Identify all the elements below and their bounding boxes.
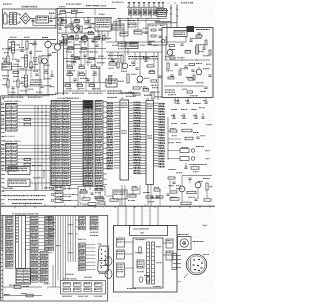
wire q1 emitter (47, 48, 49, 58)
cassette box interior extras (134, 251, 137, 254)
video section extra parts (109, 63, 116, 65)
label analog parts (2, 47, 3, 50)
mid lower cluster parts (80, 191, 87, 193)
wire divider ticks (14, 206, 16, 208)
DIN key notch (190, 259, 192, 271)
wire U2 left pins (141, 102, 146, 104)
cluster right of ICs (132, 188, 138, 190)
cassette sub board (133, 238, 163, 288)
capacitor C25 (196, 136, 199, 138)
resistor R11 (39, 56, 41, 63)
resistor R51 (185, 137, 193, 140)
fitting table box (61, 281, 106, 295)
resistor R13 (17, 80, 19, 87)
label row section A-1 (2, 96, 3, 99)
capacitor C9 (33, 41, 36, 43)
capacitor C20 (176, 101, 179, 103)
capacitor C12 (95, 44, 98, 46)
wire crystal links (168, 130, 170, 132)
connector CN4 keyboard ribbon body (16, 216, 26, 269)
resistor R22 (79, 66, 85, 68)
connector CN audio in (2, 63, 12, 70)
keyboard section border (1, 216, 108, 302)
smudge labels mid (65, 60, 68, 63)
label audio (59, 39, 60, 42)
bridge rectifier D1 (21, 13, 31, 24)
wire U10 left (84, 23, 95, 25)
IC U20 keyboard decoder (8, 167, 30, 175)
IC bottom drops (121, 185, 123, 206)
label clock (188, 163, 191, 166)
scan speckle (0, 1, 213, 302)
capacitor C59 (8, 46, 11, 48)
IC U21 (8, 179, 30, 187)
left schematic border (0, 96, 2, 216)
connector control port ovals (105, 257, 112, 266)
resistor R28 (89, 84, 95, 86)
wire q4 down (57, 50, 59, 95)
analog stubs final (12, 40, 14, 43)
transistor Q12 (73, 27, 79, 33)
resistor R73 (134, 30, 142, 34)
diode D2 (85, 21, 89, 23)
label mid parts (57, 24, 60, 27)
wire +12V feed B (176, 5, 178, 23)
resistor R30 (169, 44, 175, 46)
resistor R16 (94, 37, 100, 39)
IC U2 VIC 6567 (146, 101, 154, 185)
left analog extra labels 2 (10, 36, 11, 39)
wire PSU outputs (57, 13, 58, 16)
wire u10 drops (101, 31, 103, 42)
keyboard note extras (32, 164, 33, 167)
wire mid rail B (64, 48, 107, 50)
wire mid section divider (63, 36, 65, 95)
capacitor C17 (50, 74, 53, 76)
connector J1 cassette jack (178, 237, 192, 250)
mid label column U1-U2 (133, 101, 134, 104)
label cartridge bottom row (54, 92, 57, 95)
mid analog caps (70, 54, 73, 56)
capacitor C35 (189, 39, 192, 41)
resistor R6 (103, 36, 105, 41)
section divider under analog (1, 95, 50, 97)
resistor R26 (65, 84, 71, 86)
keyboard pin cells column B (30, 217, 38, 220)
capacitor C31 (202, 47, 205, 49)
mid analog extra labels (66, 41, 67, 44)
resistor R27 (77, 84, 83, 86)
svg-text:P6 OUTPUT 5: P6 OUTPUT 5 (112, 1, 124, 4)
top mid label row (66, 3, 67, 6)
capacitor C5 (64, 25, 67, 27)
crystal Y1 (180, 149, 189, 153)
analog extra labels (10, 41, 11, 44)
connector CN6 cassette left (117, 238, 125, 247)
connector DIN 8-pin rear view (186, 254, 206, 274)
wire tick header rail (127, 6, 164, 8)
wire audio in (12, 66, 23, 68)
wire rail under ticks (118, 18, 167, 20)
IC U14 modulator driver (112, 24, 124, 30)
connector pin circle row 2 (51, 193, 54, 196)
connector AC inlet (4, 14, 8, 24)
wire control1 row leads (17, 104, 50, 106)
svg-text:CONTROL PORT 1: CONTROL PORT 1 (4, 100, 21, 103)
label pin view (177, 233, 178, 236)
wire video v x135 (134, 52, 136, 66)
resistor R24 (67, 73, 73, 75)
resistor R56 (181, 202, 191, 204)
svg-text:RGB: RGB (98, 242, 103, 245)
keyboard bus link row (46, 216, 48, 221)
wire grid verticals (66, 39, 68, 67)
resistor R3 (74, 20, 80, 22)
capacitor C56 (135, 67, 138, 69)
resistor R65 (88, 32, 94, 34)
DIN pin labels (204, 253, 205, 256)
resistor R42 (24, 118, 31, 120)
wire rf bottom (164, 85, 204, 87)
IC U1 MPU 6510 (120, 100, 129, 180)
resistor R19 (74, 57, 80, 59)
inductor L3 (196, 46, 199, 54)
junction dots control1 (37, 108, 38, 109)
DIN pins (193, 259, 195, 260)
wire note stub (43, 171, 45, 180)
wire bottom mid rail (64, 90, 107, 92)
resistor R61 (14, 286, 21, 289)
capacitor C7 (97, 34, 100, 36)
resistor R62 (26, 294, 33, 297)
wire pin tick 3 (138, 4, 140, 7)
capacitor C1 filter (31, 20, 34, 22)
resistor R14 (68, 37, 74, 39)
resistor R17 (68, 47, 74, 49)
fitting bottom labels (61, 295, 64, 298)
svg-text:CONTROL PORT 2: CONTROL PORT 2 (4, 140, 21, 143)
svg-text:64 SX-1450: 64 SX-1450 (181, 2, 194, 5)
wire video top (106, 41, 162, 43)
wire audio stubs (169, 180, 171, 190)
label video lower (120, 91, 121, 94)
components near divider (82, 198, 90, 200)
label cassette jack (193, 240, 194, 243)
RF box extra text (190, 37, 191, 40)
label tuning (29, 78, 32, 81)
RN1 fills (129, 12, 131, 14)
cartridge slot signal column (83, 101, 93, 186)
wire bottom row 2 (3, 295, 42, 297)
resistor R34 (187, 91, 193, 93)
wire pin tick 6 (153, 4, 155, 7)
sub box outline below table (77, 187, 79, 207)
wire control bus verticals (34, 105, 36, 191)
resistor R43 (24, 123, 31, 125)
wire cassette to DIN (173, 255, 181, 257)
wire pin tick 8 (162, 4, 164, 7)
resistor R36b (167, 63, 169, 69)
wire analog bottom rail (8, 94, 56, 96)
wire video mid (106, 51, 162, 53)
capacitor C26 (184, 166, 187, 168)
capacitor C21 (186, 101, 189, 103)
capacitor C6 (70, 35, 73, 37)
label CN top (121, 92, 122, 95)
wire row3 link (63, 200, 78, 202)
wire transformer secondary (16, 13, 20, 15)
inductor L4 (25, 75, 28, 87)
wire pin tick 5 (148, 4, 150, 7)
resistor R38 (149, 71, 155, 73)
bottom mid labels (48, 227, 51, 230)
capacitor C33 (170, 74, 173, 76)
diode block D10 (55, 186, 63, 191)
resistor R54 (206, 183, 208, 190)
mid grid stubs final (71, 56, 73, 67)
control2 left pin labels (0, 143, 3, 146)
RF box extra parts (179, 70, 181, 75)
crystal Y2 (180, 157, 189, 161)
table bottom drops (52, 186, 54, 191)
clock sub-circuit box (148, 24, 167, 45)
inductor L2 (25, 55, 28, 67)
keyboard pin cells column C upper (45, 217, 54, 220)
IC U13 video amp (125, 43, 138, 49)
wire control2 row leads (17, 144, 50, 146)
upper cells col D extension (79, 217, 86, 220)
connector CN video (106, 79, 117, 87)
resistor R44 (24, 158, 31, 160)
wire rectifier output (31, 18, 37, 20)
capacitor C54 (44, 69, 47, 71)
wire stub analog 3 (17, 64, 19, 73)
wire video stubs (111, 52, 113, 62)
resistor R60 (170, 198, 179, 200)
analog extra caps (35, 73, 38, 75)
svg-text:U2: U2 (147, 97, 149, 100)
transistor Q10 (167, 50, 173, 56)
capacitor C13 (93, 71, 96, 73)
capacitor C34 (204, 86, 207, 88)
label from power board (156, 9, 157, 12)
resistor R55 (204, 199, 211, 201)
capacitor C27 (194, 198, 197, 200)
capacitor C11 (11, 86, 14, 88)
label between ovals (100, 264, 101, 267)
wire top rail drop (57, 9, 59, 45)
junction dots control2 (37, 148, 38, 149)
resistor R45 (24, 163, 31, 165)
label video note (127, 56, 130, 57)
wire U2 right pins (154, 102, 159, 104)
connector CN1 control port 1 (6, 104, 18, 132)
svg-text:1530 DATASSETTE: 1530 DATASSETTE (133, 228, 150, 231)
wire video verticals (109, 52, 111, 58)
capacitor C14 (148, 42, 151, 44)
wire body right fan (26, 217, 31, 219)
wire clock lines (168, 150, 180, 152)
resistor R8 (26, 41, 28, 49)
RF extra parts 2 (197, 32, 200, 34)
labels above ICs (106, 96, 109, 99)
resistor R32 (189, 63, 195, 65)
capacitor C16 (16, 59, 19, 61)
wire cells D links (86, 243, 96, 245)
motor M1 (117, 263, 125, 277)
capacitor C57 (144, 31, 147, 33)
transistor Q6 (179, 186, 185, 192)
transistor Q4 (54, 44, 60, 50)
capacitor C53 (29, 51, 32, 53)
capacitor C2 output (49, 20, 52, 22)
wire left drop (7, 40, 9, 57)
IC U22 lower block (16, 269, 31, 285)
wire lower cluster stubs (83, 195, 85, 199)
ferrite bead FB1 (187, 26, 195, 32)
resistor R70 on sub board (139, 247, 141, 253)
label 2SC945 (52, 42, 53, 45)
capacitor C50 (20, 49, 23, 51)
note text line 2 (7, 199, 10, 200)
transistor Q7 (195, 182, 201, 188)
cassette title box (130, 226, 168, 236)
capacitor C30 (180, 43, 183, 45)
wire U22 links (31, 271, 39, 273)
wire pin tick 2 (133, 4, 135, 7)
resistor R67 (95, 188, 103, 191)
resistor R52 (191, 167, 199, 169)
left edge pin strip (2, 216, 4, 301)
transistor Q2 (42, 58, 48, 64)
resistor R53 (187, 191, 196, 193)
label sub board (136, 238, 137, 241)
wire cartridge row links (71, 101, 84, 103)
resistor R25 (79, 73, 85, 75)
control1 left pin labels (1, 103, 2, 106)
resistor R36 (109, 76, 111, 84)
label above PSU left (3, 3, 4, 6)
edge connector fingers (147, 242, 150, 284)
wire bottom row 1 (3, 286, 42, 288)
label control ovals (98, 259, 101, 262)
transistor Q11 (196, 69, 202, 75)
voltage regulator VR1 (36, 16, 49, 23)
left border pin labels (1, 97, 4, 100)
bottom rail ticks (11, 95, 13, 97)
resistor R63 (30, 62, 32, 68)
left pin label column for U1 (107, 101, 108, 104)
wire +12V feed A (170, 5, 172, 22)
wire divider ticks right (169, 206, 171, 208)
resistor R33 (188, 78, 194, 80)
wire stub analog 2 (34, 43, 36, 56)
resistor R66 (60, 43, 66, 45)
junction dots top rail (117, 18, 118, 19)
label cassette bottom (127, 287, 128, 290)
connector CN5 video DB port (98, 246, 109, 272)
resistor R15 (81, 37, 87, 39)
capacitor C51 (58, 27, 61, 29)
svg-text:← D-1 CARTRIDGE SLOT →: ← D-1 CARTRIDGE SLOT → (55, 97, 82, 100)
wire pin tick 1 (128, 4, 130, 7)
top mid wires 2 (61, 18, 63, 25)
wire grid verticals low (69, 70, 71, 91)
wire pin tick 4 (143, 4, 145, 7)
left edge tick boxes (1, 217, 3, 219)
power supply enclosure box (3, 9, 57, 28)
label video out (106, 89, 109, 92)
transformer T1 (10, 13, 13, 25)
wire stubs top mid (65, 14, 67, 21)
resistor R35 (121, 55, 123, 63)
wire note arrows (60, 196, 70, 198)
svg-text:P1 P2 P3 P4 P5: P1 P2 P3 P4 P5 (3, 135, 15, 138)
extra ticks divider (24, 204, 26, 206)
resistor R10 (13, 71, 19, 73)
small parts right of notes (146, 196, 153, 198)
connector pin circle row 3 (51, 199, 54, 202)
resistor R50 (182, 129, 192, 132)
wire DIN arrow (184, 274, 188, 279)
resistor R41 (152, 92, 154, 99)
capacitor C15 (158, 75, 161, 77)
cassette unit enclosure (114, 226, 178, 293)
wire subbox links (80, 191, 88, 193)
capacitor C32 (174, 63, 177, 65)
bottom mid extra wires (55, 262, 57, 287)
IC U30 on sub board (137, 260, 144, 268)
resistor R75 (130, 42, 138, 46)
cartridge slot right column (95, 101, 103, 186)
svg-text:OTHER PARTS: OTHER PARTS (21, 5, 38, 8)
wire U21 out (30, 182, 52, 184)
capacitor C40 screw (139, 277, 143, 282)
wire misc 1 (106, 195, 113, 197)
label bottom mid (74, 43, 75, 46)
fuse F1 (60, 11, 66, 13)
wire keyboard rail (2, 190, 60, 192)
resistor R69 (88, 203, 96, 206)
connector CN2 control port 2 (6, 144, 18, 172)
wire rails to RF box (155, 21, 171, 23)
wire analog top rail (8, 39, 56, 41)
resistor R12 (7, 80, 9, 87)
wire divider main (1, 205, 166, 207)
wire bus-D links (76, 219, 79, 221)
connector CN3 cartridge slot table left columns (51, 101, 71, 186)
wire fan col C to bus (54, 218, 56, 220)
right cells column D (79, 243, 86, 246)
note text line 1 (3, 195, 6, 196)
label RF modulator (195, 28, 198, 31)
capacitor C52 (91, 39, 94, 41)
bus stub labels (50, 221, 51, 224)
transistor Q3 (82, 36, 88, 42)
capacitor C23 (182, 116, 185, 118)
wire U20 out (30, 170, 52, 172)
wire bottom audio rail (58, 32, 95, 34)
IC U10 timer (95, 18, 111, 31)
wire top mid-right verticals (115, 19, 117, 42)
wire cartridge right links (103, 101, 107, 103)
label cells col E (89, 231, 92, 234)
IC U12 in RF box (174, 31, 187, 37)
transistor Q1 (45, 41, 51, 47)
wire audio bottom (165, 205, 215, 207)
resistor R9 (7, 56, 9, 63)
wire mid vertical (25, 67, 27, 74)
